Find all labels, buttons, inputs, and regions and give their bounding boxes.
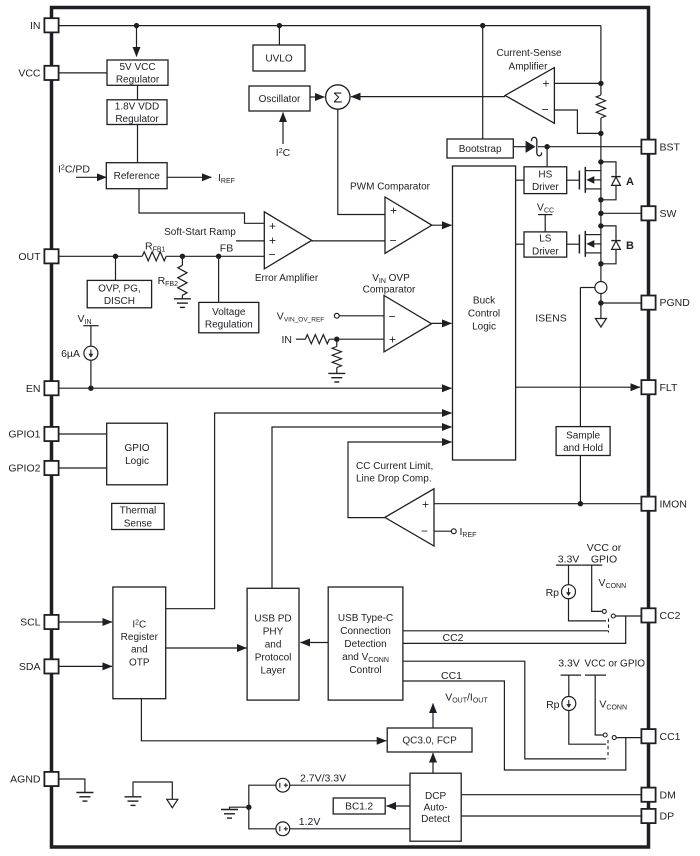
- svg-text:OTP: OTP: [129, 657, 150, 668]
- ground bottom sources: [221, 810, 238, 819]
- wire divider resistor to ground: [336, 368, 338, 374]
- svg-text:+: +: [269, 219, 276, 233]
- svg-text:IMON: IMON: [660, 498, 687, 510]
- node Q-A source-diode junction: [598, 197, 603, 202]
- arrow Q-B body: [586, 240, 594, 248]
- wire PGND to pin: [601, 302, 641, 304]
- node Q-B drain-diode junction: [598, 223, 603, 228]
- wire Reference IREF output arrow: [167, 176, 211, 178]
- op-amp current-sense amplifier: [505, 68, 554, 124]
- block USB Type-C Connection Detection: [328, 587, 403, 700]
- wire sources left bracket: [249, 785, 276, 829]
- svg-text:−: −: [389, 234, 396, 248]
- resistor RFB2: [178, 265, 187, 295]
- svg-text:Σ: Σ: [333, 89, 342, 106]
- pin AGND: [10, 772, 58, 786]
- wire TypeC CC2 lower: [403, 616, 626, 643]
- wire EN to buck: [59, 387, 452, 389]
- wire Buck to LS driver: [516, 243, 524, 245]
- svg-text:Logic: Logic: [472, 322, 496, 333]
- svg-text:PWM Comparator: PWM Comparator: [350, 182, 431, 193]
- svg-text:FB: FB: [220, 243, 233, 255]
- svg-text:OVP, PG,: OVP, PG,: [98, 283, 141, 294]
- wire RFB2 top: [181, 256, 183, 265]
- node Q-A drain-diode junction: [598, 159, 603, 164]
- pin EN: [26, 381, 59, 395]
- supply VIN bar: [83, 325, 98, 327]
- transistor Q-B channel bar: [584, 231, 586, 257]
- wire IN to Bootstrap: [482, 26, 484, 139]
- svg-text:USB Type-C: USB Type-C: [338, 613, 393, 624]
- current source Rp CC1: [562, 697, 576, 711]
- svg-text:Current-Sense: Current-Sense: [496, 48, 561, 59]
- wire I2C register to buck: [166, 413, 452, 609]
- pin FLT: [641, 380, 678, 394]
- ground middle three-bar: [125, 797, 142, 806]
- svg-text:GPIO1: GPIO1: [8, 429, 40, 441]
- wire 2.7V source to DCP: [290, 784, 410, 786]
- switch CC2 throw contact: [611, 614, 615, 618]
- svg-text:Rp: Rp: [546, 699, 560, 711]
- wire PWM output to buck: [432, 224, 452, 226]
- svg-text:BC1.2: BC1.2: [345, 802, 373, 813]
- svg-text:Layer: Layer: [261, 666, 287, 677]
- svg-text:LS: LS: [539, 234, 552, 245]
- wire Q-B diode branch bottom: [601, 249, 616, 263]
- block I2C Register and OTP: [113, 587, 166, 699]
- wire Q-A body lead: [594, 179, 601, 181]
- node FB junction: [216, 254, 221, 259]
- svg-text:CC1: CC1: [660, 731, 681, 743]
- svg-text:I2C: I2C: [276, 147, 291, 159]
- wire TypeC to USB PD arrow: [301, 642, 329, 644]
- wire I2C register to QC3: [141, 699, 386, 741]
- pin GPIO2: [8, 461, 58, 475]
- svg-text:+: +: [542, 77, 549, 91]
- wire 1.8V reg to Reference: [137, 125, 139, 163]
- svg-text:Control: Control: [349, 665, 381, 676]
- wire middle ground bracket: [133, 782, 172, 799]
- svg-text:Buck: Buck: [473, 296, 496, 307]
- wire VCC to LS driver: [544, 215, 546, 232]
- svg-text:−: −: [388, 310, 395, 324]
- svg-text:Voltage: Voltage: [212, 307, 246, 318]
- wire sample hold to IMON: [579, 456, 581, 504]
- wire Q-A diode branch top: [601, 162, 616, 177]
- current source Rp CC2: [562, 585, 576, 599]
- svg-text:DM: DM: [660, 789, 676, 801]
- switch CC2 pole contact: [602, 609, 606, 613]
- svg-text:5V VCC: 5V VCC: [119, 62, 155, 73]
- node SW junction: [598, 211, 603, 216]
- svg-text:Soft-Start Ramp: Soft-Start Ramp: [164, 227, 236, 238]
- svg-text:UVLO: UVLO: [265, 54, 292, 65]
- svg-text:Regulator: Regulator: [115, 114, 159, 125]
- block HS Driver: [524, 167, 567, 194]
- wire VCONN CC2 down: [592, 565, 602, 611]
- svg-text:HS: HS: [538, 169, 552, 180]
- svg-text:Sense: Sense: [124, 518, 153, 529]
- node CS+ rail junction: [598, 81, 603, 86]
- svg-text:−: −: [541, 103, 548, 117]
- wire Q-A source lead: [585, 188, 601, 190]
- svg-text:VCC: VCC: [18, 68, 41, 80]
- svg-text:DISCH: DISCH: [104, 296, 135, 307]
- svg-text:Comparator: Comparator: [363, 285, 416, 296]
- svg-text:and Hold: and Hold: [563, 443, 603, 454]
- wire summer to PWM + input: [338, 109, 385, 214]
- wire TypeC CC1 upper: [403, 661, 606, 759]
- block 1.8V VDD Regulator: [107, 100, 167, 125]
- resistor current sense shunt: [596, 95, 605, 118]
- dashed switch actuator CC1: [607, 740, 609, 759]
- svg-text:Logic: Logic: [125, 456, 149, 467]
- block QC3.0 FCP: [387, 728, 472, 752]
- transistor Q-B gate bar: [578, 235, 580, 254]
- wire CC amp + to IMON pin: [434, 503, 641, 505]
- wire VCONN CC1 down: [595, 675, 603, 735]
- svg-text:GPIO2: GPIO2: [8, 463, 40, 475]
- wire junction to ground: [230, 807, 249, 809]
- ground VIN divider: [328, 373, 345, 382]
- wire buck FLT output to pin: [516, 386, 640, 388]
- arrow Q-A body: [586, 176, 594, 184]
- block Sample and Hold: [556, 427, 610, 456]
- transistor Q-A gate bar: [578, 171, 580, 190]
- svg-text:Bootstrap: Bootstrap: [459, 144, 502, 155]
- svg-text:USB PD: USB PD: [254, 614, 291, 625]
- svg-text:−: −: [421, 524, 428, 538]
- wire switch to CC1 pin: [616, 737, 641, 739]
- svg-text:VCC or GPIO: VCC or GPIO: [585, 658, 646, 669]
- svg-text:CC2: CC2: [660, 610, 681, 622]
- wire bootstrap to diode: [513, 146, 526, 148]
- wire OVP comparator output to buck: [432, 322, 452, 324]
- svg-text:OUT: OUT: [18, 251, 41, 263]
- svg-text:GPIO: GPIO: [591, 553, 617, 565]
- block UVLO: [253, 45, 305, 71]
- svg-text:Auto-: Auto-: [424, 803, 448, 814]
- svg-text:DP: DP: [660, 811, 675, 823]
- wire 5V reg to 1.8V reg: [137, 85, 139, 100]
- node IN-5Vreg junction: [134, 23, 139, 28]
- svg-text:SW: SW: [660, 208, 677, 220]
- supply VCC/GPIO bar CC1: [585, 674, 606, 676]
- wire GPIO2 to logic: [59, 467, 107, 469]
- wire Q-B body lead: [594, 243, 601, 245]
- svg-text:EN: EN: [26, 383, 41, 395]
- svg-text:and: and: [131, 645, 148, 656]
- wire error amp mid + stub: [236, 240, 264, 242]
- pin DP: [641, 809, 674, 823]
- svg-text:Line Drop Comp.: Line Drop Comp.: [356, 474, 432, 485]
- wire RFB2 to ground: [181, 295, 183, 299]
- ground AGND: [76, 793, 93, 802]
- svg-text:Detect: Detect: [421, 814, 450, 825]
- svg-text:+: +: [390, 204, 397, 218]
- wire SCL arrow: [59, 621, 113, 623]
- terminal IREF circle: [451, 529, 456, 534]
- svg-text:and: and: [265, 640, 282, 651]
- svg-text:SCL: SCL: [20, 617, 41, 629]
- pin SW: [641, 206, 676, 220]
- wire VCC to 5V regulator: [59, 72, 108, 74]
- wire GPIO1 to logic: [59, 433, 107, 435]
- wire Rp CC2 down to switch: [569, 599, 607, 621]
- svg-text:Driver: Driver: [532, 182, 559, 193]
- wire divider to + input: [329, 338, 384, 340]
- wire I2C arrow up into Oscillator: [282, 113, 284, 145]
- wire error amp output to PWM - input: [312, 240, 385, 242]
- svg-text:Control: Control: [468, 309, 500, 320]
- svg-text:FLT: FLT: [660, 382, 678, 394]
- wire BST line to pin: [538, 146, 641, 148]
- summer sigma circle: [326, 85, 350, 109]
- comparator VIN OVP: [384, 296, 432, 352]
- wire BST junction to HS driver: [546, 147, 548, 167]
- wire 6uA to EN line: [90, 360, 92, 388]
- comparator PWM: [385, 197, 432, 253]
- node BST junction: [544, 144, 549, 149]
- supply 3.3V bar CC1: [561, 674, 582, 676]
- svg-text:GPIO: GPIO: [125, 443, 150, 454]
- svg-text:1.8V VDD: 1.8V VDD: [115, 101, 159, 112]
- ground middle triangle: [167, 799, 178, 808]
- svg-text:+: +: [269, 234, 276, 248]
- wire CC amp to buck: [348, 442, 452, 518]
- svg-text:Register: Register: [121, 632, 159, 643]
- pin IN: [30, 18, 59, 32]
- svg-text:+: +: [389, 333, 396, 347]
- svg-text:Thermal: Thermal: [120, 506, 157, 517]
- block Voltage Regulation: [199, 302, 259, 332]
- wire AGND to ground: [59, 779, 85, 793]
- pin CC2: [641, 608, 680, 622]
- wire divider junction down: [336, 339, 338, 346]
- op-amp CC current limit: [385, 489, 434, 546]
- wire Buck to HS driver: [516, 179, 524, 181]
- node PGND junction: [598, 300, 603, 305]
- block BC1.2: [333, 798, 385, 814]
- wire IN stub to divider resistor: [296, 338, 305, 340]
- wire input rail down right side to resistor: [600, 26, 602, 95]
- wire SW to pin: [601, 212, 641, 214]
- switch CC1 throw contact: [612, 736, 616, 740]
- wire Q-A diode branch bottom: [601, 185, 616, 199]
- ground PGND triangle: [595, 319, 606, 328]
- svg-text:VCC or: VCC or: [587, 542, 622, 554]
- pin IMON: [641, 497, 687, 511]
- wire IN to 5V regulator: [136, 26, 138, 57]
- wire I2C to USB PD arrow: [166, 647, 247, 649]
- voltage source 2.7V/3.3V: [276, 778, 290, 792]
- svg-text:Regulation: Regulation: [205, 319, 253, 330]
- op-amp error amplifier: [264, 212, 311, 269]
- pin CC1: [641, 729, 680, 743]
- block Thermal Sense: [112, 503, 165, 529]
- wire QC3 VOUT/IOUT arrow: [432, 704, 434, 729]
- wire DCP to DM pin: [461, 794, 641, 796]
- wire switch to CC2 pin: [615, 615, 641, 617]
- svg-text:CC2: CC2: [442, 632, 463, 644]
- wire IN rail across top: [59, 25, 601, 27]
- block OVP PG DISCH: [87, 280, 151, 307]
- pin SCL: [20, 615, 59, 629]
- svg-text:BST: BST: [660, 141, 681, 153]
- svg-text:3.3V: 3.3V: [558, 657, 580, 669]
- block DCP Auto-Detect: [410, 773, 461, 841]
- svg-text:2.7V/3.3V: 2.7V/3.3V: [300, 773, 346, 785]
- resistor RFB1: [142, 252, 166, 261]
- svg-text:CC Current Limit,: CC Current Limit,: [356, 461, 433, 472]
- wire ISENS tap: [580, 287, 595, 289]
- svg-text:PHY: PHY: [263, 627, 284, 638]
- node IMON junction: [578, 501, 583, 506]
- block LS Driver: [524, 232, 567, 257]
- pin VCC: [18, 66, 58, 80]
- svg-text:SDA: SDA: [19, 661, 41, 673]
- svg-text:Driver: Driver: [532, 246, 559, 257]
- wire CS amp + input to rail: [554, 82, 601, 84]
- block Bootstrap: [447, 139, 513, 158]
- wire 3.3V to Rp CC1: [568, 675, 570, 697]
- block 5V VCC Regulator: [107, 60, 168, 85]
- block Buck Control Logic: [453, 166, 516, 460]
- wire DCP to DP pin: [461, 815, 641, 817]
- block Reference: [106, 163, 167, 189]
- ground RFB2: [174, 299, 191, 308]
- wire 3.3V to Rp CC2: [568, 565, 570, 585]
- wire Q-B drain lead: [585, 234, 601, 236]
- wire CC amp - to IREF: [434, 530, 451, 532]
- wire Q-A drain lead: [585, 170, 601, 172]
- switch CC1 pole contact: [603, 733, 607, 737]
- bootstrap diode curved cathode: [531, 137, 541, 155]
- svg-text:ISENS: ISENS: [535, 313, 567, 325]
- wire Rp CC1 down to switch: [569, 710, 606, 744]
- svg-text:Reference: Reference: [114, 171, 161, 182]
- svg-text:IN: IN: [30, 20, 41, 32]
- svg-text:B: B: [626, 240, 634, 252]
- wire DCP to BC1.2 arrow: [387, 805, 411, 807]
- wire RFB1 to error amp - input: [166, 255, 264, 257]
- wire LS driver to Q-B gate: [567, 243, 580, 245]
- pin OUT: [18, 249, 58, 263]
- svg-text:A: A: [626, 176, 634, 188]
- wire I2C/PD arrow into Reference: [76, 176, 106, 178]
- svg-text:−: −: [268, 248, 275, 262]
- svg-text:CC1: CC1: [441, 670, 462, 682]
- svg-text:Amplifier: Amplifier: [509, 62, 549, 73]
- block USB PD PHY and Protocol Layer: [247, 588, 299, 700]
- wire CS amp output to summer arrow: [351, 96, 505, 98]
- svg-text:+: +: [422, 498, 429, 512]
- wire HS driver to Q-A gate: [567, 179, 580, 181]
- wire ISENS to sample hold: [579, 288, 581, 427]
- pin PGND: [641, 296, 690, 310]
- supply 3.3V bar CC2: [556, 564, 581, 566]
- svg-text:Rp: Rp: [546, 587, 560, 599]
- svg-text:Error Amplifier: Error Amplifier: [255, 273, 319, 284]
- wire OVP branch: [115, 256, 117, 280]
- node Q-B source-diode junction: [598, 261, 603, 266]
- svg-text:Sample: Sample: [566, 430, 600, 441]
- svg-text:AGND: AGND: [10, 774, 41, 786]
- wire TypeC CC2 upper: [403, 630, 608, 632]
- node VIN divider junction: [334, 337, 339, 342]
- svg-text:I2C: I2C: [132, 619, 146, 630]
- wire rail resistor to ISENS: [600, 118, 602, 282]
- node OUT-OVP junction: [113, 254, 118, 259]
- diode A body diode: [611, 177, 620, 186]
- diode B body diode: [611, 241, 620, 250]
- wire reference to soft-start to error amp: [139, 189, 264, 224]
- svg-text:DCP: DCP: [425, 791, 446, 802]
- wire Q-B source lead: [585, 252, 601, 254]
- node IN-UVLO junction: [277, 23, 282, 28]
- resistor VIN divider bottom: [332, 347, 341, 368]
- svg-text:Detection: Detection: [344, 639, 386, 650]
- terminal VVIN_OV_REF circle: [334, 313, 339, 318]
- dashed switch actuator CC2: [608, 619, 610, 633]
- wire IN to UVLO: [278, 26, 280, 45]
- svg-text:IN: IN: [282, 334, 293, 346]
- svg-text:Protocol: Protocol: [255, 653, 292, 664]
- svg-text:Regulator: Regulator: [116, 74, 160, 85]
- pin BST: [641, 140, 680, 154]
- block GPIO Logic: [107, 423, 168, 485]
- wire USB PD PHY to buck: [272, 427, 452, 588]
- svg-text:Oscillator: Oscillator: [259, 94, 301, 105]
- voltage source 1.2V: [276, 822, 290, 836]
- block Oscillator: [249, 86, 310, 111]
- svg-text:PGND: PGND: [660, 297, 691, 309]
- svg-text:QC3.0, FCP: QC3.0, FCP: [402, 736, 457, 747]
- node RFB2 junction: [180, 254, 185, 259]
- wire CS amp - input to rail: [554, 110, 601, 133]
- node IN-Bootstrap junction: [480, 23, 485, 28]
- node CS- rail junction: [598, 131, 603, 136]
- wire OUT to RFB1: [59, 255, 143, 257]
- svg-text:1.2V: 1.2V: [299, 816, 321, 828]
- node EN junction: [88, 386, 93, 391]
- wire VVIN_OV_REF to - input: [339, 315, 384, 317]
- wire FB to voltage regulation: [218, 256, 220, 302]
- supply VCC bar for LS driver: [538, 214, 552, 216]
- svg-text:6µA: 6µA: [61, 348, 80, 360]
- diode bootstrap: [526, 141, 535, 152]
- supply VCC/GPIO bar CC2: [581, 564, 602, 566]
- transistor Q-A channel bar: [584, 167, 586, 193]
- wire TypeC CC1 lower: [403, 681, 626, 770]
- wire 1.2V source to DCP: [290, 828, 410, 830]
- current source 6uA: [84, 346, 98, 360]
- wire VIN bar to current source: [90, 326, 92, 347]
- pin GPIO1: [8, 427, 58, 441]
- node source ground junction: [246, 805, 251, 810]
- wire SDA arrow: [59, 665, 113, 667]
- wire Q-B diode branch top: [601, 226, 616, 241]
- wire PGND segment: [600, 294, 602, 319]
- svg-text:VIN OVP: VIN OVP: [372, 273, 410, 285]
- resistor VIN divider top: [305, 335, 329, 344]
- svg-text:Connection: Connection: [340, 626, 391, 637]
- current source ISENS: [595, 282, 607, 294]
- wire DCP to QC3 arrow: [432, 753, 434, 773]
- svg-text:3.3V: 3.3V: [558, 553, 580, 565]
- wire Oscillator to summer arrow: [310, 96, 325, 98]
- pin DM: [641, 788, 675, 802]
